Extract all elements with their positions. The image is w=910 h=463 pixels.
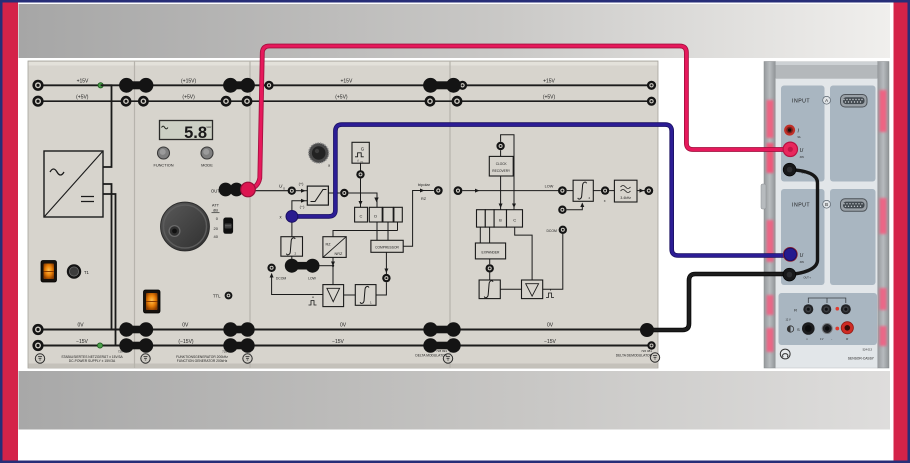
- jack demod input: [454, 186, 463, 195]
- svg-text:D: D: [374, 214, 377, 219]
- input A subpanel right: [830, 86, 876, 182]
- svg-text:FUNCTION GENERATOR 200kHz: FUNCTION GENERATOR 200kHz: [177, 359, 228, 363]
- 0V rail: [38, 323, 648, 330]
- svg-text:−15V: −15V: [544, 339, 556, 345]
- TTL jack: [213, 292, 233, 300]
- wire clock jack loop: [501, 135, 514, 210]
- wire x jack down to integrator2: [291, 220, 293, 237]
- svg-text:SENSOR-CASSY: SENSOR-CASSY: [848, 357, 875, 361]
- wire integrator to DAC demod: [500, 288, 521, 290]
- bridging plug integrator2 to LOW: [285, 259, 320, 273]
- jack expander out: [486, 264, 494, 272]
- svg-text:0V: 0V: [77, 323, 84, 329]
- jack Us: [288, 187, 296, 195]
- wire jack to integrator1: [376, 282, 386, 295]
- jack row1 right: [841, 304, 851, 314]
- jack black device input B: [783, 268, 796, 281]
- jack +15V module4 left: [458, 81, 467, 90]
- lowpass filter box: [614, 180, 637, 202]
- svg-text:A: A: [825, 98, 828, 103]
- input B subpanel right: [830, 189, 876, 285]
- training panel base plate: [28, 61, 658, 368]
- rocker switch module1: [41, 261, 57, 283]
- jack LOW demod: [545, 185, 567, 196]
- svg-text:(+5V): (+5V): [543, 95, 556, 101]
- LED glow strip left bottom: [767, 295, 774, 352]
- wire x jack to filter: [609, 190, 614, 192]
- svg-text:B: B: [499, 218, 502, 223]
- svg-text:C: C: [360, 214, 363, 219]
- wire clock jack to sampler: [359, 179, 363, 208]
- svg-text:C: C: [513, 218, 516, 223]
- module4 bottom label text: [616, 349, 653, 358]
- bridging plug 0V boundary2: [223, 322, 254, 336]
- plug red at device U input A: [783, 142, 797, 156]
- svg-text:(−15V): (−15V): [178, 339, 193, 345]
- attenuator slide switch: [223, 218, 233, 234]
- jacks +5V rail boundary2: [221, 96, 253, 107]
- top gray band: [19, 4, 891, 58]
- svg-text:(−): (−): [300, 204, 306, 209]
- DAC box mod: [323, 285, 344, 307]
- integrator box demod: [479, 280, 500, 299]
- svg-text:+15V: +15V: [77, 79, 89, 85]
- svg-text:RZ: RZ: [326, 243, 332, 247]
- svg-text:(+5V): (+5V): [76, 95, 89, 101]
- LED glow strip left A: [767, 100, 774, 173]
- ground symbol panel4: [443, 354, 452, 363]
- svg-text:728 991: 728 991: [436, 349, 447, 353]
- -15V rail: [38, 339, 652, 346]
- svg-text:△: △: [806, 338, 808, 341]
- integrator 1 box mod: [355, 285, 376, 306]
- jack black device input A: [783, 163, 796, 176]
- sampler box B: [494, 210, 506, 227]
- terminal 0V left: [32, 324, 43, 335]
- jack compressor out: [382, 274, 390, 282]
- jacks +5V rail boundary1: [121, 96, 149, 107]
- wire OUT to Us: [248, 190, 288, 192]
- svg-text:9A: 9A: [798, 136, 801, 139]
- wire +15V to converter: [101, 85, 112, 167]
- wire sampler to rz-nrz: [333, 231, 398, 237]
- svg-text:T1: T1: [84, 270, 90, 275]
- wire integrator2 to jack: [291, 256, 293, 261]
- panel seam 1: [134, 61, 136, 368]
- EXPANDER box: [475, 243, 505, 259]
- svg-text:524 013: 524 013: [863, 348, 873, 352]
- wire rznrz down to DAC: [331, 257, 335, 284]
- jack S big: [802, 322, 815, 335]
- plug black at 0V: [640, 323, 654, 337]
- module 1 power supply converter box: [44, 151, 103, 217]
- svg-text:S: S: [283, 186, 285, 190]
- svg-text:0V: 0V: [182, 323, 189, 329]
- bridging plug 0V boundary3: [423, 322, 460, 336]
- terminal +15V left: [32, 80, 43, 91]
- svg-text:bipolar: bipolar: [418, 182, 431, 187]
- terminal -15V left: [32, 340, 43, 351]
- CLOCK RECOVERY box: [489, 156, 513, 176]
- svg-text:0V: 0V: [340, 323, 347, 329]
- svg-text:FUNCTION: FUNCTION: [153, 163, 173, 168]
- wire x to comparator minus: [292, 199, 307, 210]
- ground symbol panel1: [35, 354, 44, 363]
- jack +15V right end: [647, 81, 656, 90]
- svg-text:728 99: 728 99: [118, 350, 128, 354]
- LED red row1: [836, 307, 840, 311]
- svg-text:(+5V): (+5V): [182, 95, 195, 101]
- module1 bottom label text: [61, 350, 127, 363]
- wire demod input to LOW: [462, 189, 558, 193]
- device chassis: [764, 62, 889, 369]
- svg-text:OUT +: OUT +: [804, 277, 812, 280]
- D-sub connector B: [841, 199, 868, 212]
- svg-text:DC-POWER SUPPLY ± 15V/3A: DC-POWER SUPPLY ± 15V/3A: [69, 359, 116, 363]
- jack middle ringed: [822, 324, 832, 334]
- bottom gray band: [19, 371, 891, 430]
- bridging plug +15V boundary2: [223, 78, 255, 93]
- jacks +5V rail boundary3: [425, 96, 463, 107]
- bridging plug -15V boundary1: [119, 338, 153, 352]
- bridging plug -15V boundary3: [423, 338, 460, 352]
- svg-text:a: a: [328, 164, 330, 168]
- sampler box E: [383, 207, 393, 222]
- LCD display U1: [160, 121, 213, 142]
- svg-text:U: U: [800, 148, 804, 154]
- DAC box demod: [522, 280, 543, 299]
- svg-text:(+): (+): [299, 181, 305, 186]
- svg-text:DELTA DEMODULATOR: DELTA DEMODULATOR: [616, 353, 653, 357]
- wires sampler to expander: [480, 227, 489, 243]
- svg-text:−15V: −15V: [76, 339, 88, 345]
- svg-text:U: U: [800, 253, 804, 259]
- rocker switch module2: [144, 290, 161, 313]
- LED red row2: [835, 327, 839, 331]
- bridging plug -15V boundary2: [223, 338, 254, 352]
- sampler box D: [369, 207, 382, 222]
- wire integrator1 to DAC: [344, 294, 356, 296]
- crimson left bar: [3, 3, 19, 461]
- svg-text:+15V: +15V: [340, 79, 352, 85]
- panel seam 3: [449, 61, 451, 368]
- OUT jack with stack plug: [211, 183, 243, 197]
- jack -15V right end: [647, 341, 655, 349]
- ground symbol panel4 right: [650, 353, 659, 362]
- LED glow strip right A: [880, 90, 887, 132]
- svg-text:COMPRESSOR: COMPRESSOR: [375, 246, 399, 250]
- svg-text:G: G: [361, 146, 365, 151]
- svg-text:+15V: +15V: [543, 79, 555, 85]
- tiny bottom marks: [806, 338, 849, 342]
- svg-text:NRZ: NRZ: [335, 252, 343, 256]
- integrator 2 box: [281, 237, 303, 257]
- svg-text:EXPANDER: EXPANDER: [482, 251, 501, 255]
- jack DCOM mod: [267, 264, 286, 281]
- svg-text:40: 40: [214, 234, 219, 239]
- clock generator G: [352, 142, 369, 164]
- svg-text:dB: dB: [213, 208, 218, 213]
- sampler boxes demod: [477, 210, 495, 227]
- input A subpanel left: [781, 86, 825, 182]
- module3 bottom label text: [415, 349, 447, 358]
- device mounting clip left: [761, 184, 766, 209]
- plug blue at device U input B: [783, 247, 798, 262]
- bottom subpanel: [779, 293, 878, 345]
- svg-text:S: S: [797, 327, 800, 332]
- svg-text:12 V: 12 V: [786, 319, 791, 322]
- module2 bottom label text: [176, 350, 233, 363]
- sampler box C: [355, 207, 368, 222]
- svg-text:LOW: LOW: [545, 185, 554, 189]
- jack I input A: [784, 125, 801, 139]
- jack +15V module3 left: [264, 81, 273, 90]
- svg-text:B: B: [825, 202, 828, 207]
- RZ NRZ box: [323, 237, 346, 258]
- label U input A: [800, 148, 805, 159]
- wire LOW to integrator2 demod: [567, 190, 573, 192]
- svg-text:f: f: [358, 159, 359, 163]
- wire compressor to bipolar out: [403, 182, 434, 246]
- INPUT B label: [792, 200, 830, 208]
- label Us: [279, 184, 285, 191]
- input B subpanel left: [781, 189, 825, 285]
- wire DCOM to DAC demod: [543, 234, 563, 289]
- relay bracket: [808, 298, 846, 303]
- button MODE: [201, 147, 213, 168]
- device logo: [780, 349, 790, 359]
- jack bipolar out: [434, 186, 443, 195]
- svg-text:0V: 0V: [547, 323, 554, 329]
- bridging plug +15V boundary3: [423, 78, 461, 93]
- wire jack to integrator demod: [489, 273, 491, 280]
- jack x demod: [601, 186, 609, 203]
- jack +5V right end: [647, 97, 656, 106]
- svg-text:MODE: MODE: [201, 163, 213, 168]
- wire converter to 0V: [103, 184, 112, 330]
- sampler box F: [394, 207, 402, 222]
- bridging plug 0V boundary1: [119, 322, 153, 336]
- attenuator labels: [212, 203, 220, 240]
- node green tap -15V: [97, 343, 102, 348]
- comparator U2: [307, 186, 328, 205]
- wire C box to DAC demod: [515, 227, 532, 280]
- wire generator to jack: [360, 163, 362, 170]
- INPUT A label: [792, 96, 830, 104]
- jack DCOM demod: [546, 226, 567, 234]
- LED glow strip right bottom: [880, 288, 887, 346]
- svg-text:INPUT: INPUT: [792, 203, 810, 209]
- amplitude knob: [161, 202, 210, 251]
- wire LOW to rznrz line: [320, 265, 334, 267]
- wire integrator2 to x jack demod: [593, 190, 601, 192]
- bridging plug +15V boundary1: [119, 78, 153, 93]
- pulse glyph mod: [309, 297, 317, 306]
- wire black cable 0V to input B ground: [647, 274, 785, 330]
- +5V rail: [38, 95, 652, 102]
- node green tap +15V: [98, 83, 103, 88]
- jack row1 mid: [821, 304, 831, 314]
- jack comparator out: [340, 189, 348, 197]
- svg-text:(+15V): (+15V): [181, 79, 196, 85]
- svg-text:(+5V): (+5V): [335, 95, 348, 101]
- svg-text:728 961: 728 961: [222, 350, 233, 354]
- ground symbol panel3: [243, 354, 252, 363]
- wire black loop input A to input B: [790, 170, 818, 275]
- svg-text:x: x: [604, 199, 606, 203]
- wire Us to comparator: [296, 181, 307, 193]
- wire filter to out jack: [637, 189, 645, 193]
- svg-text:−15V: −15V: [332, 339, 344, 345]
- crimson right bar: [894, 3, 908, 461]
- svg-text:30V: 30V: [800, 156, 805, 159]
- wire clock recovery to sampler B: [499, 176, 516, 210]
- svg-text:20: 20: [214, 226, 219, 231]
- plug blue at x: [286, 211, 298, 223]
- jack clock mod: [356, 170, 364, 178]
- panel seam 2: [249, 61, 251, 368]
- svg-text:5.8: 5.8: [184, 124, 207, 142]
- svg-text:DCOM: DCOM: [276, 277, 287, 281]
- wire converter to -15V: [103, 194, 116, 346]
- wires sampler to compressor: [377, 222, 398, 240]
- svg-text:RECOVERY: RECOVERY: [492, 169, 511, 173]
- wire compressor down: [384, 252, 388, 274]
- wire expander to jack: [489, 259, 491, 264]
- svg-text:LOW: LOW: [308, 277, 317, 281]
- potentiometer a: [309, 143, 330, 168]
- jack clock recovery top: [496, 142, 504, 150]
- wire DAC to DCOM: [270, 273, 323, 295]
- wire aux jack to integrator2 demod: [567, 203, 585, 210]
- plug red at OUT: [241, 182, 256, 197]
- LED glow strip left B: [767, 220, 774, 262]
- +15V rail: [38, 79, 652, 86]
- wire red cable generator OUT to input A: [248, 46, 784, 190]
- svg-text:TTL: TTL: [213, 293, 221, 298]
- terminal +5V left: [32, 96, 43, 107]
- button T1: [67, 264, 90, 278]
- jack row1 left: [803, 304, 813, 314]
- svg-text:726 081: 726 081: [641, 349, 652, 353]
- svg-text:INPUT: INPUT: [792, 99, 810, 105]
- COMPRESSOR box: [371, 240, 403, 252]
- ground symbol panel2: [141, 354, 150, 363]
- svg-text:DELTA MODULATOR: DELTA MODULATOR: [415, 353, 447, 357]
- svg-text:RZ: RZ: [421, 197, 427, 201]
- wire comparator out: [328, 193, 378, 207]
- svg-text:kHz: kHz: [207, 125, 212, 129]
- speaker glyph: [787, 326, 800, 332]
- svg-text:30V: 30V: [800, 261, 805, 264]
- jack red W: [841, 322, 853, 334]
- LED glow strip right B: [880, 198, 887, 234]
- jack low aux demod: [558, 206, 566, 214]
- integrator 2 box demod: [573, 180, 593, 201]
- D-sub connector A: [841, 95, 868, 108]
- jack demod out: [644, 186, 653, 195]
- svg-text:3.4kHz: 3.4kHz: [620, 196, 631, 200]
- svg-text:CLOCK: CLOCK: [496, 162, 508, 166]
- button FUNCTION: [153, 147, 173, 168]
- label U input B: [800, 253, 805, 264]
- svg-text:DCOM: DCOM: [546, 229, 557, 233]
- sampler box C demod: [507, 210, 523, 227]
- wire blue cable modulator x to input B: [292, 125, 785, 256]
- svg-text:0 V: 0 V: [820, 339, 824, 341]
- svg-text:R: R: [794, 308, 797, 313]
- pulse glyph demod: [546, 289, 554, 298]
